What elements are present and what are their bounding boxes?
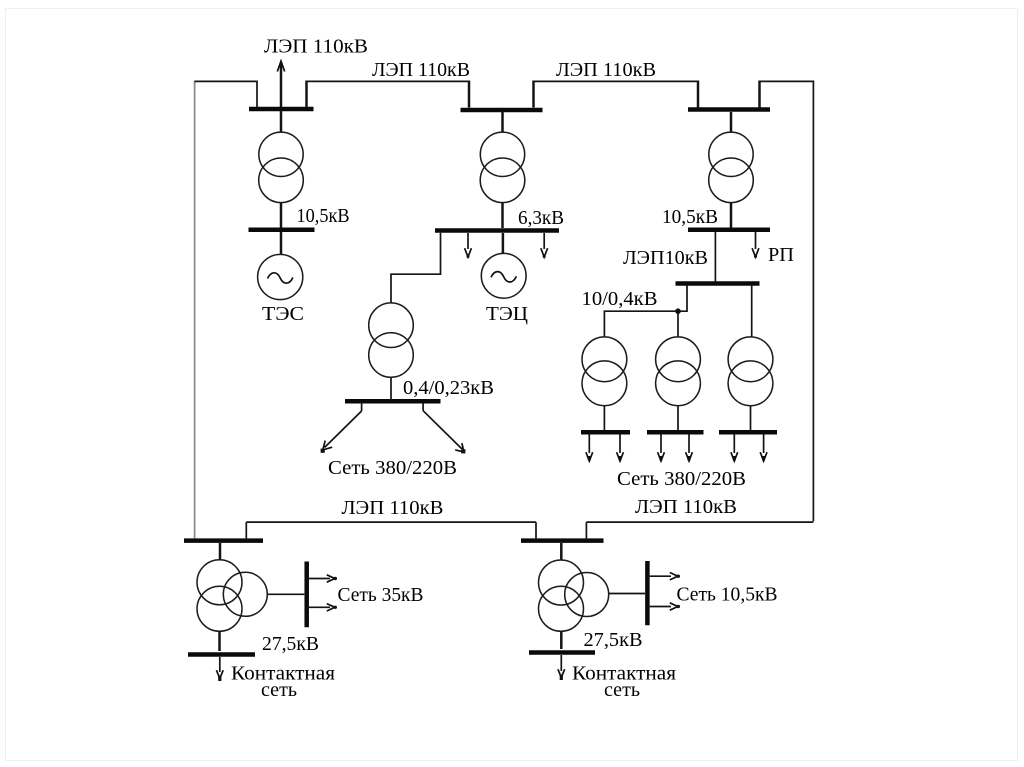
wire 10kV bus to T7	[751, 286, 753, 338]
svg-text:ЛЭП10кВ: ЛЭП10кВ	[623, 247, 708, 269]
wire ЛЭП 110кВ link TEC-RP	[534, 80, 699, 82]
svg-text:ЛЭП 110кВ: ЛЭП 110кВ	[635, 496, 737, 518]
wire TES bus to transformer T1	[280, 110, 283, 133]
node ЛЭП 110кВ outgoing line arrow	[280, 63, 283, 108]
busbar 10.5kV RP	[688, 227, 770, 232]
wire TW1 to 27.5kV bus	[218, 631, 221, 651]
busbar 110kV traction left	[184, 538, 263, 543]
contact network arrow right	[558, 655, 565, 680]
feeder arrow right (10.5kV upper)	[650, 573, 680, 580]
feeder arrow diagonal right	[423, 403, 465, 453]
busbar 110kV traction right	[521, 538, 604, 543]
busbar 10kV distribution	[676, 281, 760, 286]
wire TW2 to 27.5kV bus	[560, 631, 563, 649]
transformer TW2 (three windings)	[539, 560, 609, 631]
svg-text:ЛЭП 110кВ: ЛЭП 110кВ	[556, 59, 656, 81]
busbar 27.5kV right	[529, 650, 595, 655]
transformer T7 (two windings)	[728, 337, 773, 406]
svg-text:РП: РП	[768, 244, 794, 266]
wire T2 to 6.3kV bus	[501, 203, 504, 229]
busbar 27.5kV left	[188, 652, 255, 657]
wire T4 to 0.4kV bus	[390, 377, 392, 399]
busbar 0.4/0.23kV	[345, 399, 441, 404]
busbar 35kV (vertical)	[304, 562, 309, 628]
svg-text:ЛЭП 110кВ: ЛЭП 110кВ	[264, 36, 368, 58]
svg-text:27,5кВ: 27,5кВ	[584, 629, 643, 651]
wire right ring main (to bottom right substation)	[586, 81, 813, 539]
svg-text:сеть: сеть	[604, 679, 640, 701]
wire top-left horizontal to TES bus riser	[195, 81, 257, 108]
transformer T2 (two windings)	[480, 132, 525, 203]
generator G1 TES	[258, 254, 303, 299]
wire left ring main vertical (grey)	[194, 81, 196, 539]
load arrow down (TEC bus right)	[541, 233, 548, 258]
feeder arrow right (35kV lower)	[309, 604, 337, 611]
svg-text:Сеть 380/220В: Сеть 380/220В	[328, 457, 457, 479]
wire bus1 riser to line 2	[305, 81, 308, 108]
generator G2 TEC	[481, 253, 526, 298]
contact network arrow left	[216, 657, 223, 681]
svg-text:ТЭЦ: ТЭЦ	[486, 303, 528, 325]
svg-text:сеть: сеть	[261, 679, 297, 701]
wire ЛЭП10кВ feeder	[714, 232, 716, 282]
svg-text:ТЭС: ТЭС	[262, 303, 304, 325]
transformer T5 (two windings)	[582, 337, 627, 406]
wire bus to generator G1	[280, 232, 283, 254]
svg-text:Сеть 10,5кВ: Сеть 10,5кВ	[677, 584, 778, 606]
wire RP bus to transformer T3	[730, 112, 733, 133]
load arrow down РП	[752, 232, 759, 258]
wire riser into TEC 110kV bus	[468, 81, 471, 108]
wire T6 to bus	[677, 406, 679, 430]
feeder arrow diagonal left	[321, 403, 362, 453]
transformer T4 (two windings)	[369, 303, 414, 377]
svg-text:Сеть 35кВ: Сеть 35кВ	[338, 584, 424, 606]
transformer T1 (two windings)	[259, 132, 304, 203]
wire 10kV bus down and left to T5	[604, 286, 687, 338]
wire bus to TW1	[219, 543, 222, 560]
svg-text:Сеть 380/220В: Сеть 380/220В	[617, 468, 746, 490]
feeder arrow right (10.5kV lower)	[650, 603, 680, 610]
wire riser into RP 110kV bus	[697, 81, 700, 108]
wire TW1 to 35kV bus	[267, 593, 304, 595]
wire ЛЭП 110кВ link TES-TEC	[307, 80, 470, 82]
svg-text:10,5кВ: 10,5кВ	[662, 206, 718, 228]
busbar 110kV TEC	[461, 108, 543, 113]
transformer TW1 (three windings)	[197, 560, 267, 632]
load arrow down (TEC bus left)	[465, 233, 472, 258]
load arrows down (six)	[586, 435, 767, 462]
svg-text:ЛЭП 110кВ: ЛЭП 110кВ	[342, 497, 444, 519]
busbar 0.4kV left	[581, 430, 630, 435]
wire TEC bus to transformer T2	[501, 111, 504, 133]
wire bus2 riser to line 3	[532, 81, 535, 108]
busbar 10.5kV traction (vertical)	[645, 561, 650, 625]
junction dot	[675, 308, 681, 314]
wire T3 to 10.5kV bus	[730, 203, 733, 228]
wire TW2 to 10.5kV bus	[609, 593, 645, 595]
busbar 10.5kV TES	[249, 227, 315, 232]
wire bus to TW2	[560, 543, 563, 560]
wire TEC bus feeder to local transformer T4	[391, 233, 441, 303]
feeder arrow right (35kV upper)	[309, 575, 337, 582]
wire ЛЭП link between traction substations	[246, 522, 536, 538]
wire T1 to 10.5kV bus	[280, 203, 283, 228]
svg-text:10/0,4кВ: 10/0,4кВ	[582, 288, 658, 310]
wire RP bus riser to right ring line	[758, 81, 761, 108]
busbar 110kV RP	[688, 107, 770, 112]
busbar 0.4kV middle	[647, 430, 704, 435]
transformer T3 (two windings)	[709, 132, 754, 203]
svg-text:0,4/0,23кВ: 0,4/0,23кВ	[403, 377, 494, 399]
wire T7 to bus	[750, 406, 752, 430]
svg-text:6,3кВ: 6,3кВ	[518, 207, 564, 229]
busbar 6.3kV TEC	[435, 228, 559, 233]
transformer T6 (two windings)	[656, 337, 701, 406]
busbar 0.4kV right	[719, 430, 777, 435]
wire bus to generator G2	[502, 233, 505, 254]
wire T5 to bus	[603, 406, 605, 430]
wire junction to T6	[677, 313, 679, 337]
svg-text:ЛЭП 110кВ: ЛЭП 110кВ	[372, 59, 470, 81]
svg-text:27,5кВ: 27,5кВ	[262, 633, 319, 655]
svg-text:10,5кВ: 10,5кВ	[297, 205, 350, 227]
busbar 110kV TES	[249, 107, 314, 112]
